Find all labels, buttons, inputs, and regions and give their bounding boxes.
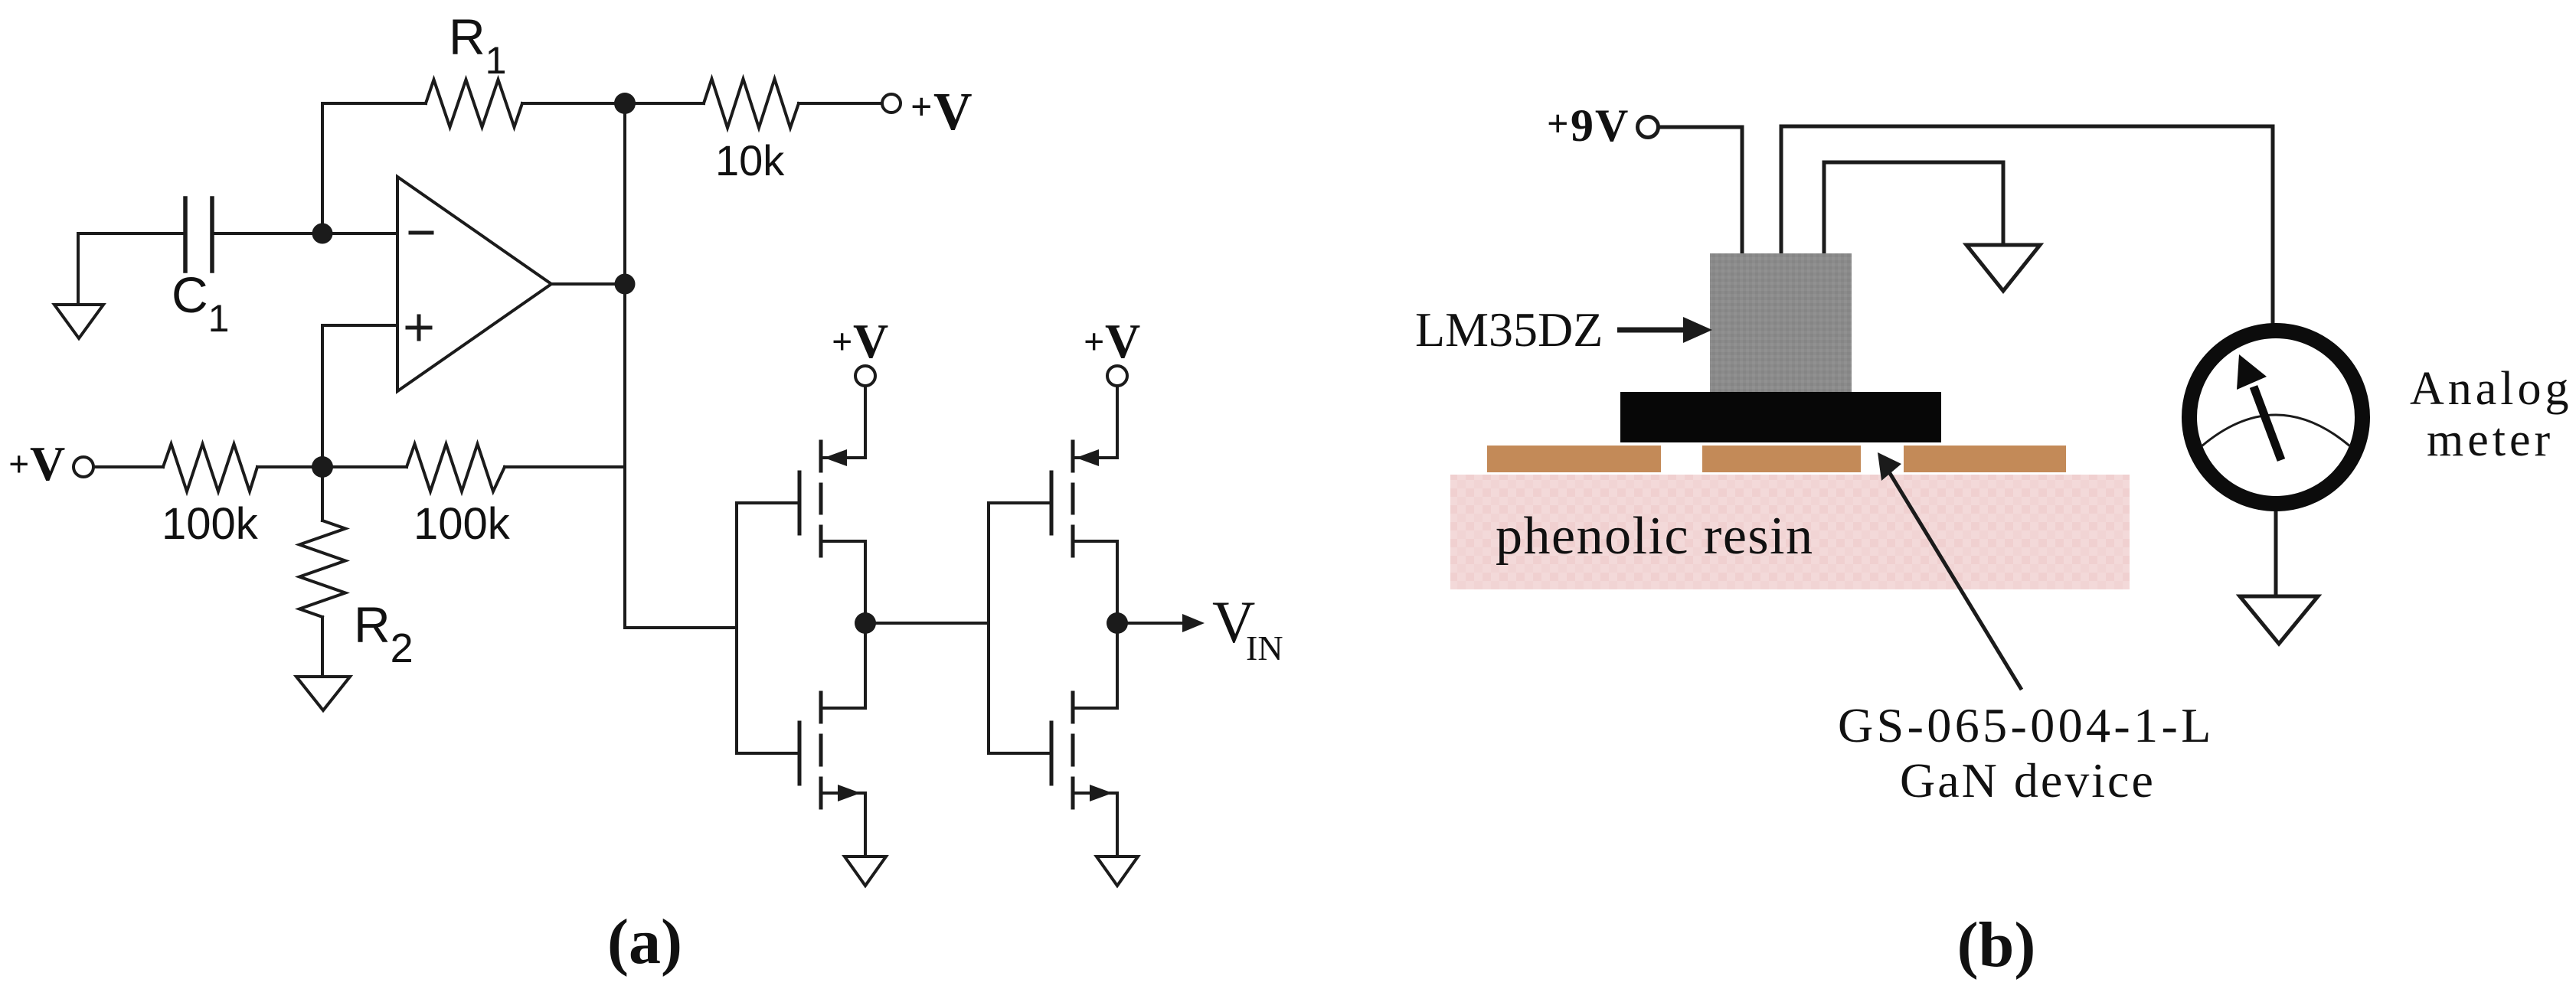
transistor Q4 (lower, inverter 2) [989, 623, 1117, 857]
svg-text:+: + [832, 322, 852, 362]
transistor Q2 (lower, inverter 1) [737, 623, 865, 857]
svg-text:phenolic resin: phenolic resin [1496, 507, 1814, 566]
node: resistor divider junction [312, 456, 333, 478]
node: inverter 1 output [855, 612, 876, 634]
wire: VIN output arrow [1117, 622, 1189, 625]
wire: op-amp output [551, 282, 625, 286]
svg-text:meter: meter [2427, 414, 2554, 466]
transistor Q1 (upper, inverter 1) [737, 442, 865, 623]
wire: LM35 pin 3 to ground [1824, 162, 2003, 253]
GaN device (black package) [1620, 392, 1941, 442]
node: inverter 2 output [1107, 612, 1128, 634]
svg-text:10k: 10k [715, 136, 785, 184]
svg-text:+: + [910, 85, 933, 128]
ground: below R2 [321, 617, 324, 677]
svg-text:9V: 9V [1571, 100, 1630, 151]
svg-text:V: V [1105, 314, 1140, 368]
svg-text:(a): (a) [607, 906, 682, 978]
wire: node to 10k [625, 102, 704, 105]
wire: inverter 1 input line [735, 503, 738, 753]
wire: right vertical rail [625, 103, 737, 628]
svg-text:+: + [1547, 102, 1569, 145]
arrow: GaN device pointer [1878, 452, 2022, 690]
svg-text:V: V [933, 83, 973, 142]
wire: +V to transistor Q3 [1116, 386, 1119, 458]
resistor 10k [704, 79, 799, 128]
wire: R1 top-left feedback wire [322, 103, 426, 233]
copper pad middle [1702, 446, 1861, 472]
capacitor C1 plates [185, 198, 212, 271]
svg-text:Analog: Analog [2410, 363, 2573, 415]
terminal: +V circle inverter 1 [855, 366, 875, 386]
analog meter M1 [2189, 331, 2362, 504]
wire: C1 to inverting input node [212, 232, 397, 235]
terminal: +V circle inverter 2 [1107, 366, 1127, 386]
wire: non-inverting input [322, 325, 397, 467]
node: R1/10k junction [614, 93, 636, 114]
resistor R2 [321, 467, 324, 521]
wire: 100k to node [257, 465, 322, 468]
svg-text:GaN device: GaN device [1900, 753, 2156, 808]
resistor R1 [426, 80, 522, 127]
terminal: +V open circle (top) [882, 94, 901, 113]
wire: 10k to +V terminal [799, 102, 881, 105]
node: inverting input junction [312, 224, 333, 244]
svg-text:LM35DZ: LM35DZ [1415, 302, 1603, 357]
resistor 100k (right) [407, 444, 505, 491]
svg-text:+: + [8, 444, 29, 485]
wire: +9V to LM35 pin 1 [1659, 127, 1742, 253]
svg-text:V: V [853, 314, 888, 368]
node: output junction on right rail [615, 274, 636, 295]
terminal: +9V open circle [1638, 117, 1659, 138]
svg-text:(b): (b) [1957, 909, 2036, 981]
svg-text:V: V [30, 436, 65, 491]
copper pad right [1904, 446, 2066, 472]
ground: inverter 2 [1097, 857, 1138, 886]
op-amp U1 [397, 177, 551, 391]
wire: meter to ground [2274, 510, 2278, 596]
wire: inverter 2 input line [987, 503, 990, 753]
ground: inverter 1 [845, 857, 886, 886]
ground: below C1 left wire [77, 233, 80, 305]
wire: LM35 pin 2 to analog meter [1781, 126, 2273, 325]
svg-text:GS-065-004-1-L: GS-065-004-1-L [1838, 698, 2215, 752]
capacitor C1 left wire [78, 232, 185, 235]
svg-text:100k: 100k [162, 499, 259, 549]
phenolic resin board [1450, 475, 2130, 589]
wire: 100k right to rail [505, 465, 625, 468]
svg-text:IN: IN [1246, 628, 1283, 667]
ground: LM35 output ground [1966, 245, 2040, 291]
arrow: LM35DZ pointer [1617, 317, 1712, 343]
svg-text:100k: 100k [414, 499, 511, 549]
transistor Q3 (upper, inverter 2) [989, 442, 1117, 623]
wire: +V to 100k [93, 465, 163, 468]
wire: node to 100k (right) [322, 465, 407, 468]
wire: R1 right to node [522, 102, 625, 105]
wire: inverter 1 to inverter 2 [865, 622, 989, 625]
copper pad left [1487, 446, 1661, 472]
resistor 100k (left) [163, 444, 257, 491]
svg-text:+: + [1084, 322, 1104, 362]
terminal: +V open circle (left) [74, 457, 93, 477]
ground: below analog meter [2240, 596, 2318, 644]
wire: +V to transistor Q1 [864, 386, 867, 458]
LM35DZ sensor body [1710, 253, 1852, 392]
